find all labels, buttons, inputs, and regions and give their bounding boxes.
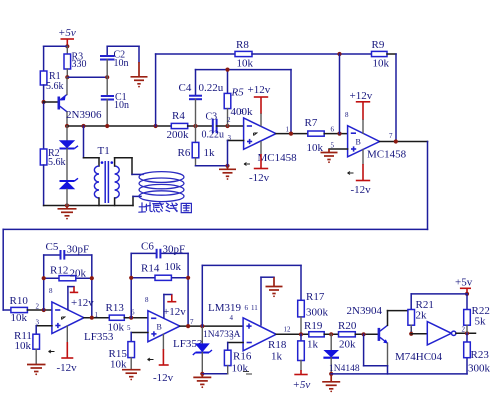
svg-text:10n: 10n	[114, 100, 129, 111]
wire C6 loop left	[130, 253, 132, 317]
op-amp U1B MC1458	[331, 111, 407, 175]
svg-text:R5: R5	[231, 87, 245, 99]
node	[42, 308, 46, 312]
node	[409, 332, 413, 336]
wire	[290, 70, 292, 134]
ground (D4)	[322, 374, 340, 392]
node output U1A	[289, 132, 293, 136]
resistor R3	[64, 46, 87, 77]
resistor R4	[167, 110, 190, 141]
resistor R20	[338, 320, 357, 351]
svg-text:+5v: +5v	[455, 277, 473, 289]
wire	[27, 309, 52, 311]
inverter U4 M74HC04	[395, 322, 466, 363]
wire	[43, 165, 45, 206]
node	[337, 132, 341, 136]
svg-text:R10: R10	[10, 295, 29, 307]
transistor Q1 2N3906	[44, 77, 102, 126]
resistor R18	[268, 334, 304, 370]
svg-text:5k: 5k	[475, 316, 487, 328]
capacitor C6	[131, 241, 188, 259]
svg-text:8: 8	[240, 108, 244, 116]
wire	[217, 125, 244, 127]
ground (C2)	[131, 62, 148, 88]
capacitor C1	[101, 77, 129, 126]
wire output U3	[276, 333, 309, 335]
node	[90, 276, 94, 280]
svg-text:R12: R12	[50, 265, 68, 277]
svg-text:12: 12	[284, 326, 292, 334]
svg-text:6: 6	[131, 309, 135, 317]
svg-text:300k: 300k	[306, 307, 329, 319]
node collector on bus	[65, 124, 69, 128]
svg-text:10k: 10k	[165, 261, 182, 273]
svg-text:+12v: +12v	[350, 90, 373, 102]
svg-text:R6: R6	[178, 147, 191, 159]
svg-text:LM319: LM319	[208, 302, 242, 314]
node	[186, 324, 190, 328]
wire C6 loop right	[187, 253, 189, 326]
ground (D3)	[193, 374, 211, 388]
node	[225, 124, 229, 128]
svg-text:C5: C5	[46, 241, 59, 253]
svg-text:R23: R23	[471, 349, 490, 361]
svg-text:+12v: +12v	[163, 306, 186, 318]
resistor R10	[10, 295, 29, 324]
capacitor C5	[44, 241, 92, 260]
wire	[155, 54, 157, 126]
svg-text:-12v: -12v	[249, 172, 270, 184]
svg-text:R17: R17	[306, 291, 325, 303]
svg-text:30pF: 30pF	[163, 244, 186, 256]
wire	[411, 333, 427, 335]
power +12v U1B	[350, 90, 373, 133]
power -12v U2B	[153, 334, 174, 384]
svg-text:2: 2	[227, 116, 231, 124]
wire	[107, 45, 139, 47]
svg-text:+5v: +5v	[293, 379, 311, 391]
wire output U2B	[180, 325, 243, 327]
wire long loop right	[427, 142, 429, 230]
svg-text:R7: R7	[305, 117, 318, 129]
svg-text:-12v: -12v	[57, 362, 78, 374]
node	[465, 331, 469, 335]
wire	[43, 102, 45, 149]
wire	[43, 46, 45, 71]
node	[81, 124, 85, 128]
svg-text:1N4148: 1N4148	[329, 364, 360, 374]
label 地感线圈	[139, 203, 192, 213]
svg-text:10n: 10n	[114, 58, 129, 69]
wire coil bottom	[133, 196, 141, 205]
wire R23 bottom rail	[331, 358, 467, 374]
wire	[3, 309, 11, 311]
svg-text:R8: R8	[236, 39, 249, 51]
svg-text:10k: 10k	[11, 312, 28, 324]
svg-text:C6: C6	[141, 241, 154, 253]
svg-text:10k: 10k	[15, 340, 32, 352]
power +12v U1A	[248, 84, 271, 126]
wire	[252, 53, 372, 55]
svg-text:4: 4	[230, 314, 234, 322]
power +12v U2A	[68, 287, 94, 310]
resistor R12	[44, 265, 92, 281]
power -12v U2A	[57, 326, 78, 374]
ground (pin5 U1B)	[321, 149, 338, 163]
wire	[44, 45, 68, 47]
capacitor C2	[100, 46, 129, 77]
wire pin3 U2A	[36, 326, 52, 334]
svg-text:2N3906: 2N3906	[66, 109, 102, 121]
resistor R11	[14, 330, 40, 364]
node	[42, 276, 46, 280]
resistor R22	[464, 294, 490, 333]
resistor R16	[224, 350, 252, 374]
wire ground rail	[44, 205, 133, 207]
svg-text:20k: 20k	[70, 268, 87, 280]
node	[200, 324, 204, 328]
wire output U1B	[380, 141, 428, 143]
resistor R19	[304, 320, 324, 351]
resistor R7	[305, 117, 325, 154]
wire	[188, 125, 213, 127]
ground (LM319 gnd pin)	[261, 277, 283, 325]
power +5v	[58, 27, 76, 46]
resistor R9	[372, 39, 390, 70]
svg-text:R16: R16	[233, 351, 252, 363]
node	[65, 203, 69, 207]
node	[154, 124, 158, 128]
svg-text:1k: 1k	[271, 351, 283, 363]
wire output U1A	[276, 133, 308, 135]
node	[105, 75, 109, 79]
wire main bus	[67, 125, 171, 127]
node	[225, 164, 229, 168]
svg-text:-12v: -12v	[351, 184, 372, 196]
svg-text:8: 8	[49, 287, 53, 295]
capacitor C4	[179, 70, 224, 126]
svg-text:R9: R9	[372, 39, 385, 51]
node	[337, 52, 341, 56]
wire	[395, 54, 397, 142]
svg-text:R13: R13	[106, 302, 125, 314]
wire C5 loop right	[91, 255, 93, 318]
svg-text:0.22u: 0.22u	[199, 82, 224, 94]
node	[329, 372, 333, 376]
power +5v (inverter)	[455, 277, 473, 294]
wire collector Q2	[388, 311, 408, 326]
wire long loop across	[3, 228, 427, 230]
wire	[456, 332, 476, 334]
svg-text:0.22u: 0.22u	[202, 130, 225, 141]
node	[193, 124, 197, 128]
node	[65, 75, 69, 79]
wire T1 secondary bottom	[114, 198, 116, 206]
wire C5 loop left	[43, 255, 45, 310]
resistor R15	[109, 342, 135, 371]
svg-text:10k: 10k	[237, 58, 254, 70]
node	[129, 276, 133, 280]
svg-text:+12v: +12v	[71, 297, 94, 309]
wire T1 primary bottom	[98, 198, 100, 206]
node	[225, 68, 229, 72]
svg-text:T1: T1	[98, 145, 110, 157]
node	[186, 276, 190, 280]
svg-text:2: 2	[36, 303, 40, 311]
wire long loop left	[2, 229, 4, 310]
wire emitter loop	[364, 334, 388, 374]
wire	[43, 85, 45, 102]
op-amp U2A LF353	[36, 287, 114, 353]
wire	[355, 333, 379, 335]
svg-text:R19: R19	[304, 320, 323, 332]
op-amp U1A MC1458	[227, 108, 297, 166]
svg-text:300k: 300k	[468, 363, 491, 375]
svg-text:10k: 10k	[373, 58, 390, 70]
node	[465, 292, 469, 296]
wire	[339, 54, 341, 134]
node	[129, 316, 133, 320]
wire pin3 U1A	[228, 141, 244, 166]
wire	[324, 133, 347, 135]
svg-text:R4: R4	[172, 110, 185, 122]
resistor R2	[40, 148, 65, 168]
zener D1	[59, 126, 78, 181]
svg-text:B: B	[356, 138, 361, 147]
svg-text:5.6k: 5.6k	[46, 81, 64, 92]
resistor R17	[298, 291, 329, 334]
wire	[124, 317, 148, 319]
resistor R6	[178, 126, 216, 166]
svg-text:200k: 200k	[167, 129, 190, 141]
diode D4 1N4148	[323, 334, 359, 374]
svg-text:-12v: -12v	[153, 372, 174, 384]
svg-text:+5v: +5v	[58, 27, 76, 39]
wire LM319 positive feedback	[202, 265, 301, 326]
svg-text:C3: C3	[206, 112, 218, 123]
svg-text:20k: 20k	[339, 339, 356, 351]
resistor R21	[408, 294, 434, 334]
svg-text:2k: 2k	[416, 310, 428, 322]
wire	[138, 46, 140, 62]
resistor R1	[40, 71, 63, 92]
svg-text:10k: 10k	[108, 322, 125, 334]
svg-text:5.6k: 5.6k	[48, 157, 66, 168]
svg-text:30pF: 30pF	[67, 244, 90, 256]
wire	[411, 293, 467, 295]
svg-text:6: 6	[331, 126, 335, 134]
resistor R5	[224, 70, 253, 126]
wire	[67, 76, 107, 78]
transistor Q2 2N3904	[347, 305, 388, 344]
node	[394, 139, 398, 143]
wire pin5 U3	[228, 343, 243, 351]
svg-text:5: 5	[230, 334, 234, 342]
svg-text:B: B	[157, 323, 162, 332]
transformer T1	[94, 145, 119, 203]
op-amp U2B LF353	[127, 296, 203, 361]
ground (R11)	[27, 365, 46, 376]
zener D2	[59, 178, 78, 205]
ground (oscillator)	[58, 206, 77, 220]
resistor R13	[106, 302, 125, 334]
svg-text:1k: 1k	[204, 147, 216, 159]
node	[200, 372, 204, 376]
wire	[196, 165, 228, 167]
node	[105, 124, 109, 128]
wire	[202, 373, 227, 375]
svg-text:10k: 10k	[232, 363, 249, 375]
capacitor C3	[202, 112, 225, 141]
wire feedback U1A	[196, 69, 292, 71]
node	[299, 332, 303, 336]
resistor R8	[235, 39, 254, 70]
svg-text:5: 5	[127, 324, 131, 332]
svg-text:MC1458: MC1458	[258, 152, 298, 164]
svg-text:R20: R20	[338, 320, 357, 332]
svg-text:R14: R14	[141, 263, 160, 275]
svg-text:R18: R18	[268, 339, 287, 351]
svg-text:C4: C4	[179, 82, 192, 94]
node	[329, 332, 333, 336]
wire R8 rail	[156, 53, 235, 55]
svg-text:M74HC04: M74HC04	[395, 351, 443, 363]
svg-text:2: 2	[462, 326, 466, 334]
inductor loop coil	[139, 172, 184, 202]
svg-text:1: 1	[286, 126, 290, 134]
wire output U2A	[84, 317, 109, 319]
wire	[324, 333, 338, 335]
node base Q1	[42, 100, 46, 104]
svg-text:330: 330	[72, 59, 87, 70]
svg-text:2N3904: 2N3904	[347, 305, 383, 317]
power -12v U1B	[351, 150, 372, 197]
resistor R23	[464, 333, 491, 374]
svg-text:6: 6	[245, 304, 249, 312]
node top-left	[65, 44, 69, 48]
node	[362, 332, 366, 336]
zener D3 1N4733A	[193, 326, 241, 374]
op-amp U3 LM319	[208, 302, 291, 351]
ground (R15)	[122, 370, 141, 381]
svg-text:11: 11	[251, 304, 258, 312]
wire pin5 U2B	[131, 333, 148, 342]
svg-text:1N4733A: 1N4733A	[203, 330, 241, 340]
node	[90, 316, 94, 320]
svg-text:8: 8	[345, 111, 349, 119]
power +12v U2B	[163, 295, 186, 319]
power +5v (R18)	[293, 370, 311, 391]
svg-text:10k: 10k	[110, 359, 127, 371]
resistor R14	[131, 261, 188, 280]
svg-text:7: 7	[190, 318, 194, 326]
svg-text:+12v: +12v	[248, 84, 271, 96]
wire T1 primary top	[84, 126, 100, 166]
svg-text:8: 8	[145, 296, 149, 304]
wire pin5 U1B	[329, 148, 348, 150]
svg-text:7: 7	[389, 132, 393, 140]
svg-text:1k: 1k	[307, 339, 319, 351]
wire	[387, 53, 396, 55]
ground (pin3 U1A)	[219, 166, 236, 180]
svg-text:MC1458: MC1458	[367, 149, 407, 161]
wire T1 secondary top	[115, 158, 143, 175]
power -12v U1A	[249, 142, 270, 184]
